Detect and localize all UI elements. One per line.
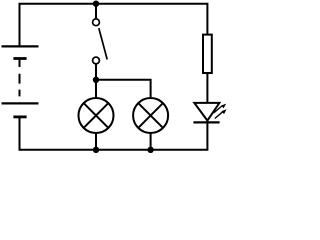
wire from battery positive up, across top, down to resistor: [20, 4, 208, 47]
battery B1 negative plate (cell 1 short): [13, 57, 26, 60]
LED D1 triangle (anode): [194, 103, 219, 121]
switch S1 upper terminal circle: [93, 19, 100, 26]
wire stub from lamp L1 bottom to bottom rail: [95, 133, 97, 150]
battery B1 dashed link between cells: [19, 60, 21, 97]
battery B1 positive plate (cell 1 long): [2, 45, 39, 47]
node A junction dot on top wire at switch: [93, 1, 99, 7]
wire from battery negative down, across bottom, up to LED cathode: [20, 118, 208, 150]
wire stub from lamp L2 bottom to bottom rail: [150, 133, 152, 150]
resistor R1 body: [203, 35, 212, 73]
LED D1 light arrow upper: [214, 104, 227, 113]
LED D1 light arrow lower: [215, 109, 227, 118]
node C junction dot on bottom wire under L1: [93, 147, 99, 153]
wire stub from node B down to lamp L1: [95, 80, 97, 98]
battery B1 negative plate (cell 2 short): [13, 116, 26, 119]
switch S1 blade (open): [99, 28, 107, 59]
wire stub from switch lower terminal down to branch node: [95, 64, 97, 80]
lamp L1 cross: [84, 103, 109, 128]
lamp L2 cross: [138, 103, 163, 128]
node D junction dot on bottom wire under L2: [147, 147, 153, 153]
switch S1 lower terminal circle: [93, 57, 100, 64]
node B junction dot at lamp branch: [93, 77, 99, 83]
wire from resistor bottom to LED anode: [206, 73, 208, 103]
wire stub from top junction down to switch upper terminal: [95, 4, 97, 19]
lamp L1 circle: [79, 98, 114, 133]
LED D1 cathode bar: [193, 121, 219, 123]
lamp L2 circle: [133, 98, 168, 133]
battery B1 positive plate (cell 2 long): [2, 102, 39, 104]
wire branch from node B right and down to lamp L2: [96, 80, 151, 98]
